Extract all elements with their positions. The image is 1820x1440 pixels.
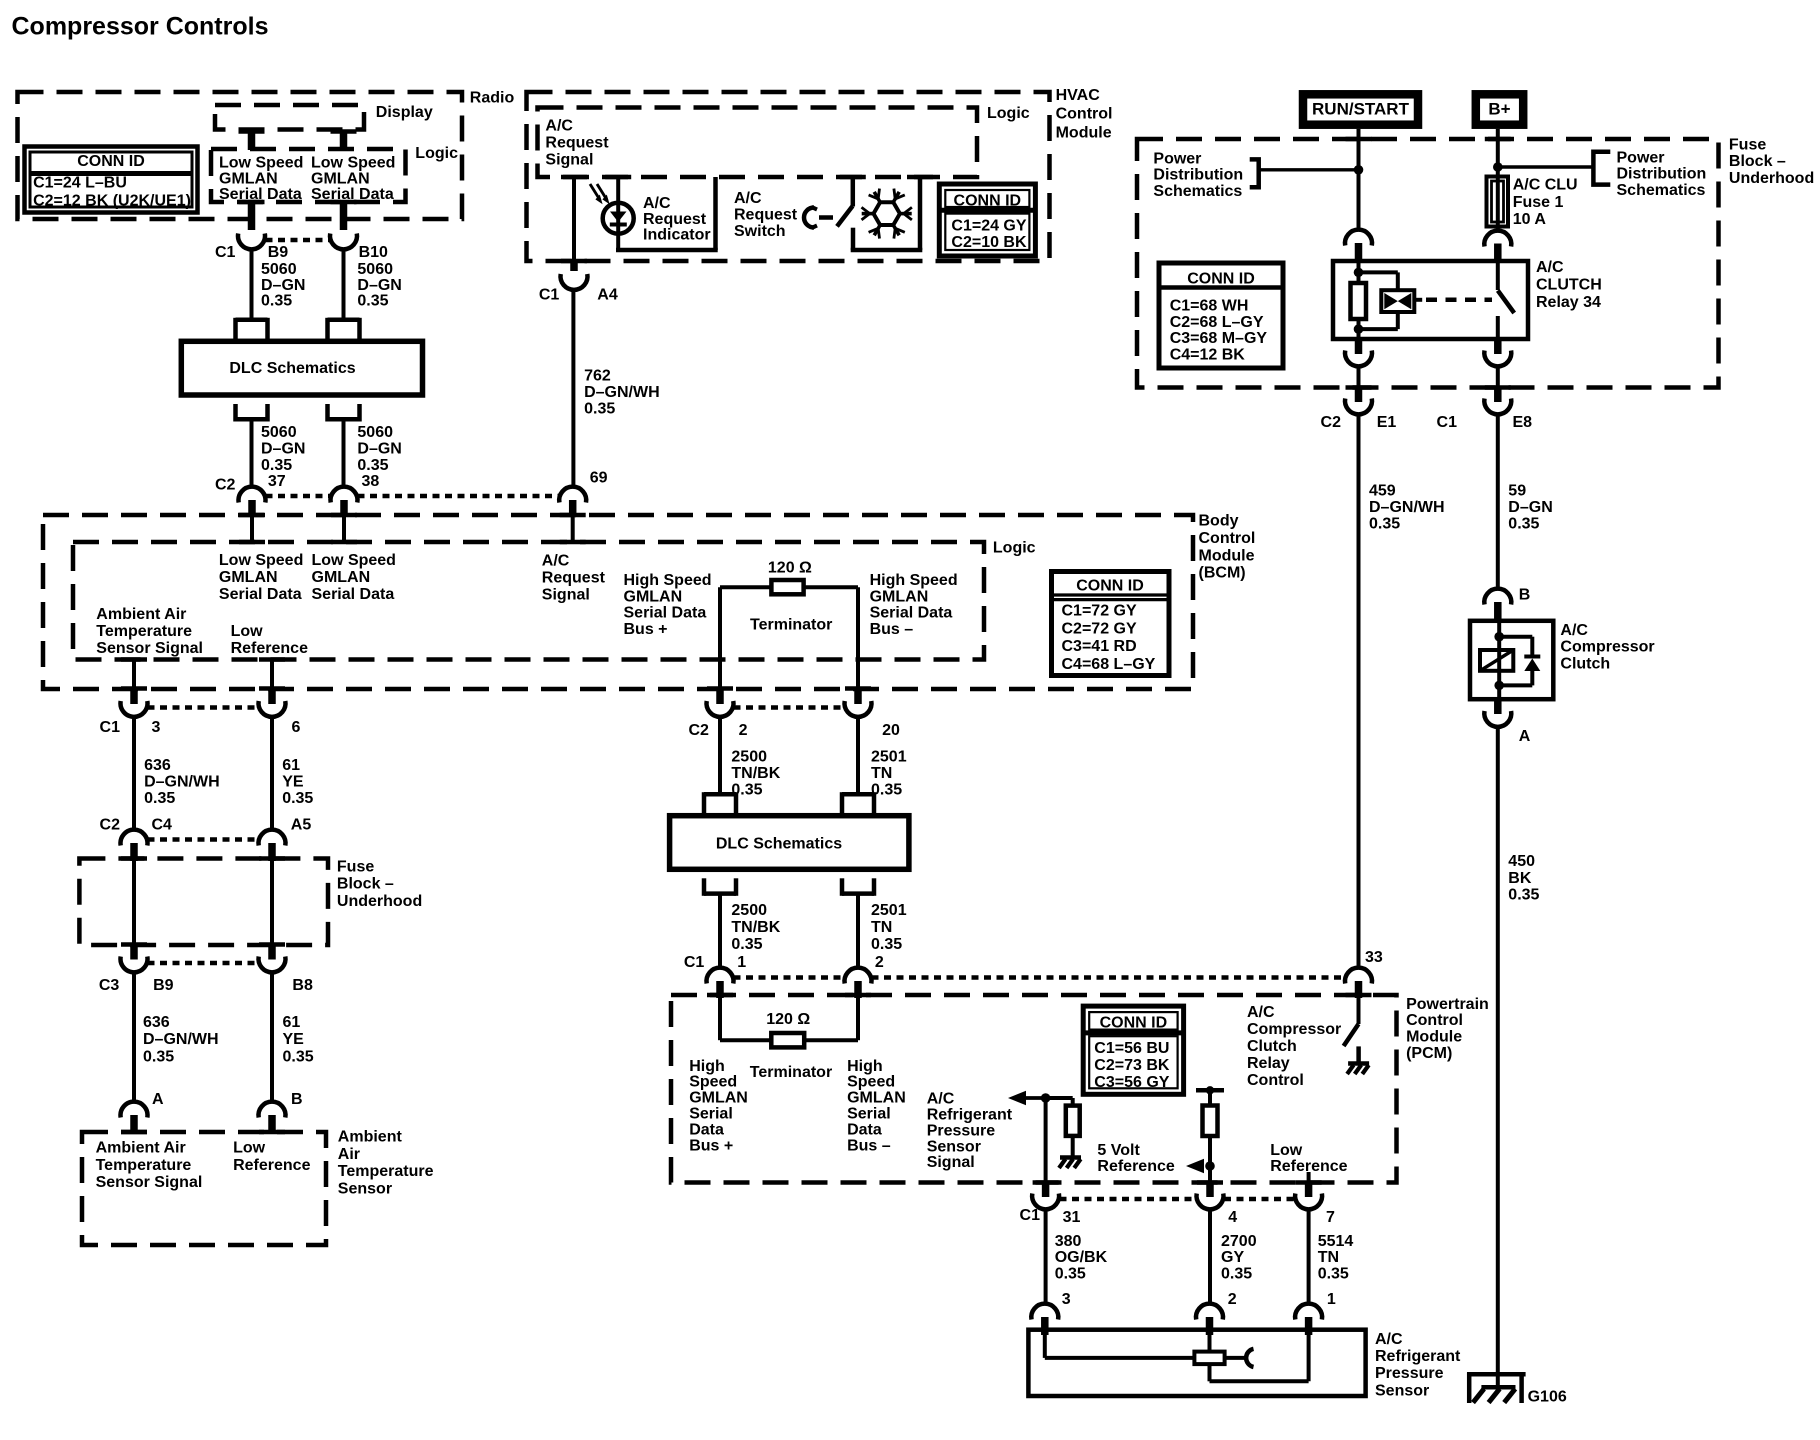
svg-text:Powertrain: Powertrain	[1406, 996, 1489, 1013]
svg-text:3: 3	[1062, 1291, 1071, 1308]
svg-text:Underhood: Underhood	[1729, 170, 1814, 187]
svg-text:0.35: 0.35	[261, 293, 292, 310]
svg-text:0.35: 0.35	[282, 790, 313, 807]
svg-text:Logic: Logic	[993, 540, 1036, 557]
svg-text:D–GN/WH: D–GN/WH	[1369, 499, 1445, 516]
svg-text:GMLAN: GMLAN	[219, 569, 278, 586]
svg-text:C2=12 BK (U2K/UE1): C2=12 BK (U2K/UE1)	[33, 193, 191, 210]
svg-text:Serial Data: Serial Data	[312, 586, 395, 603]
svg-text:Module: Module	[1406, 1029, 1462, 1046]
svg-text:Request: Request	[643, 211, 707, 228]
svg-text:Power: Power	[1153, 151, 1201, 168]
svg-text:6: 6	[292, 719, 301, 736]
svg-text:Request: Request	[542, 570, 606, 587]
svg-text:Logic: Logic	[415, 145, 458, 162]
svg-text:C3=41 RD: C3=41 RD	[1062, 638, 1137, 655]
svg-text:GY: GY	[1221, 1249, 1244, 1266]
svg-text:A/C: A/C	[545, 118, 573, 135]
svg-text:120 Ω: 120 Ω	[766, 1011, 810, 1028]
svg-text:4: 4	[1228, 1209, 1237, 1226]
svg-text:C2=73 BK: C2=73 BK	[1094, 1057, 1170, 1074]
svg-text:C1=56 BU: C1=56 BU	[1094, 1040, 1169, 1057]
svg-text:69: 69	[590, 470, 608, 487]
svg-text:C2=10 BK: C2=10 BK	[951, 234, 1027, 251]
svg-text:A/C: A/C	[1560, 622, 1588, 639]
svg-text:C2: C2	[688, 722, 709, 739]
svg-text:Compressor: Compressor	[1560, 639, 1654, 656]
svg-text:B8: B8	[292, 977, 313, 994]
svg-text:Sensor: Sensor	[338, 1180, 392, 1197]
svg-text:Data: Data	[689, 1121, 724, 1138]
svg-text:B+: B+	[1488, 100, 1510, 119]
svg-text:Compressor: Compressor	[1247, 1021, 1341, 1038]
svg-text:TN: TN	[871, 919, 892, 936]
svg-text:Control: Control	[1406, 1012, 1463, 1029]
svg-text:High: High	[689, 1058, 725, 1075]
svg-text:Control: Control	[1056, 106, 1113, 123]
svg-text:C4: C4	[152, 816, 173, 833]
svg-text:Serial Data: Serial Data	[624, 605, 707, 622]
svg-text:Refrigerant: Refrigerant	[1375, 1348, 1461, 1365]
svg-text:C1: C1	[1020, 1207, 1041, 1224]
svg-text:7: 7	[1326, 1209, 1335, 1226]
svg-text:C2: C2	[1321, 414, 1342, 431]
svg-text:Bus +: Bus +	[689, 1137, 733, 1154]
svg-text:DLC Schematics: DLC Schematics	[229, 360, 355, 377]
svg-text:Low: Low	[231, 623, 264, 640]
svg-text:Distribution: Distribution	[1617, 166, 1707, 183]
svg-text:0.35: 0.35	[1055, 1265, 1086, 1282]
svg-text:20: 20	[882, 722, 900, 739]
svg-text:C3: C3	[99, 977, 120, 994]
svg-text:B10: B10	[359, 244, 388, 261]
svg-text:5 Volt: 5 Volt	[1097, 1142, 1140, 1159]
svg-text:636: 636	[143, 1014, 170, 1031]
svg-text:2: 2	[739, 722, 748, 739]
svg-text:HVAC: HVAC	[1056, 87, 1101, 104]
svg-text:GMLAN: GMLAN	[312, 569, 371, 586]
svg-text:0.35: 0.35	[584, 400, 615, 417]
svg-text:Terminator: Terminator	[750, 1064, 832, 1081]
svg-text:Control: Control	[1247, 1072, 1304, 1089]
svg-text:Serial Data: Serial Data	[219, 586, 302, 603]
svg-text:Request: Request	[545, 135, 609, 152]
svg-text:2: 2	[875, 954, 884, 971]
svg-text:Signal: Signal	[542, 587, 590, 604]
svg-text:Refrigerant: Refrigerant	[927, 1107, 1013, 1124]
svg-text:RUN/START: RUN/START	[1312, 100, 1410, 119]
svg-text:Bus +: Bus +	[624, 621, 668, 638]
svg-text:A4: A4	[597, 287, 618, 304]
svg-text:1: 1	[1327, 1291, 1336, 1308]
svg-text:10 A: 10 A	[1513, 211, 1547, 228]
svg-text:Bus –: Bus –	[870, 621, 914, 638]
svg-text:OG/BK: OG/BK	[1055, 1249, 1108, 1266]
svg-text:C2=68 L–GY: C2=68 L–GY	[1170, 314, 1264, 331]
svg-text:2700: 2700	[1221, 1233, 1257, 1250]
svg-text:A/C: A/C	[734, 190, 762, 207]
svg-text:A/C: A/C	[1375, 1331, 1403, 1348]
svg-text:Switch: Switch	[734, 223, 786, 240]
svg-text:CONN ID: CONN ID	[1187, 270, 1255, 287]
svg-text:Indicator: Indicator	[643, 227, 711, 244]
svg-text:C1=24 GY: C1=24 GY	[951, 218, 1026, 235]
svg-text:C1=68 WH: C1=68 WH	[1170, 298, 1249, 315]
svg-text:Terminator: Terminator	[750, 617, 832, 634]
svg-text:GMLAN: GMLAN	[689, 1090, 748, 1107]
svg-text:Ambient Air: Ambient Air	[96, 1140, 186, 1157]
svg-text:Bus –: Bus –	[847, 1137, 891, 1154]
svg-text:E1: E1	[1377, 414, 1397, 431]
svg-text:0.35: 0.35	[357, 293, 388, 310]
svg-text:Body: Body	[1199, 513, 1239, 530]
svg-text:762: 762	[584, 367, 611, 384]
svg-text:Sensor Signal: Sensor Signal	[96, 640, 203, 657]
svg-text:D–GN: D–GN	[357, 440, 401, 457]
svg-text:D–GN/WH: D–GN/WH	[144, 774, 220, 791]
svg-text:C1: C1	[539, 287, 560, 304]
svg-text:YE: YE	[282, 774, 304, 791]
svg-text:E8: E8	[1513, 414, 1533, 431]
svg-text:0.35: 0.35	[1221, 1265, 1252, 1282]
svg-text:D–GN: D–GN	[357, 277, 401, 294]
svg-text:Control: Control	[1199, 530, 1256, 547]
svg-text:B: B	[1519, 587, 1531, 604]
svg-text:(PCM): (PCM)	[1406, 1045, 1452, 1062]
svg-text:Signal: Signal	[927, 1154, 975, 1171]
svg-text:A/C: A/C	[542, 553, 570, 570]
svg-text:TN: TN	[1318, 1249, 1339, 1266]
svg-text:1: 1	[737, 954, 746, 971]
svg-text:Low Speed: Low Speed	[311, 155, 395, 172]
svg-text:Low: Low	[233, 1140, 266, 1157]
svg-text:A/C CLU: A/C CLU	[1513, 177, 1578, 194]
svg-text:37: 37	[268, 473, 286, 490]
svg-text:GMLAN: GMLAN	[870, 588, 929, 605]
svg-text:Fuse: Fuse	[337, 858, 374, 875]
svg-text:Ambient: Ambient	[338, 1129, 403, 1146]
svg-text:Low Speed: Low Speed	[312, 552, 396, 569]
svg-text:Radio: Radio	[470, 90, 515, 107]
svg-text:5514: 5514	[1318, 1233, 1354, 1250]
svg-text:2500: 2500	[731, 749, 767, 766]
svg-text:Logic: Logic	[987, 105, 1030, 122]
svg-text:Low: Low	[1270, 1142, 1303, 1159]
svg-text:Speed: Speed	[689, 1074, 737, 1091]
svg-text:Schematics: Schematics	[1617, 182, 1706, 199]
svg-text:A: A	[152, 1091, 164, 1108]
svg-text:A: A	[1519, 728, 1531, 745]
svg-text:61: 61	[283, 1014, 301, 1031]
svg-text:0.35: 0.35	[261, 457, 292, 474]
svg-text:GMLAN: GMLAN	[624, 588, 683, 605]
svg-text:2: 2	[1228, 1291, 1237, 1308]
svg-text:High: High	[847, 1058, 883, 1075]
svg-text:0.35: 0.35	[731, 936, 762, 953]
svg-text:5060: 5060	[261, 261, 297, 278]
svg-text:38: 38	[362, 473, 380, 490]
svg-text:D–GN: D–GN	[1508, 499, 1552, 516]
svg-text:Module: Module	[1056, 124, 1112, 141]
svg-text:31: 31	[1063, 1209, 1081, 1226]
svg-text:YE: YE	[283, 1031, 305, 1048]
svg-text:GMLAN: GMLAN	[311, 170, 370, 187]
svg-text:Schematics: Schematics	[1153, 183, 1242, 200]
svg-text:C2=72 GY: C2=72 GY	[1062, 620, 1137, 637]
svg-text:Display: Display	[376, 104, 433, 121]
svg-text:Request: Request	[734, 206, 798, 223]
svg-text:59: 59	[1508, 482, 1526, 499]
svg-text:C2: C2	[100, 816, 121, 833]
svg-text:C3=68 M–GY: C3=68 M–GY	[1170, 330, 1268, 347]
svg-text:0.35: 0.35	[871, 936, 902, 953]
svg-text:2501: 2501	[871, 749, 907, 766]
svg-text:5060: 5060	[357, 424, 393, 441]
svg-text:0.35: 0.35	[1318, 1265, 1349, 1282]
svg-text:C3=56 GY: C3=56 GY	[1094, 1074, 1169, 1091]
svg-text:61: 61	[282, 757, 300, 774]
svg-text:CLUTCH: CLUTCH	[1536, 277, 1602, 294]
svg-text:C1=72 GY: C1=72 GY	[1062, 603, 1137, 620]
svg-text:0.35: 0.35	[144, 790, 175, 807]
svg-text:(BCM): (BCM)	[1199, 565, 1246, 582]
svg-text:450: 450	[1508, 853, 1535, 870]
svg-text:B9: B9	[153, 977, 174, 994]
svg-text:Reference: Reference	[231, 640, 308, 657]
svg-text:Fuse: Fuse	[1729, 136, 1766, 153]
svg-text:0.35: 0.35	[143, 1048, 174, 1065]
svg-text:Block –: Block –	[337, 876, 394, 893]
svg-text:Temperature: Temperature	[96, 1157, 192, 1174]
svg-text:TN: TN	[871, 765, 892, 782]
svg-text:Relay: Relay	[1247, 1055, 1290, 1072]
svg-text:0.35: 0.35	[1369, 516, 1400, 533]
svg-text:C1: C1	[1437, 414, 1458, 431]
svg-text:Reference: Reference	[1097, 1158, 1174, 1175]
svg-text:CONN ID: CONN ID	[1076, 578, 1144, 595]
svg-text:2501: 2501	[871, 902, 907, 919]
svg-text:C4=68 L–GY: C4=68 L–GY	[1062, 656, 1156, 673]
svg-text:CONN ID: CONN ID	[77, 153, 145, 170]
svg-text:GMLAN: GMLAN	[219, 170, 278, 187]
svg-text:C1: C1	[100, 719, 121, 736]
svg-text:380: 380	[1055, 1233, 1082, 1250]
svg-text:A/C: A/C	[643, 195, 671, 212]
svg-text:A5: A5	[291, 816, 312, 833]
svg-text:0.35: 0.35	[357, 457, 388, 474]
svg-text:TN/BK: TN/BK	[731, 919, 780, 936]
svg-text:Signal: Signal	[545, 152, 593, 169]
svg-text:Clutch: Clutch	[1560, 655, 1610, 672]
svg-text:C1: C1	[215, 244, 236, 261]
svg-text:120 Ω: 120 Ω	[768, 559, 812, 576]
svg-text:Ambient Air: Ambient Air	[96, 606, 186, 623]
svg-text:Serial Data: Serial Data	[870, 605, 953, 622]
svg-text:B: B	[291, 1091, 303, 1108]
svg-text:C1: C1	[684, 954, 705, 971]
svg-text:5060: 5060	[261, 424, 297, 441]
svg-text:2500: 2500	[731, 902, 767, 919]
svg-text:Serial: Serial	[847, 1106, 891, 1123]
svg-text:459: 459	[1369, 482, 1396, 499]
svg-text:Serial: Serial	[689, 1106, 733, 1123]
svg-text:Clutch: Clutch	[1247, 1038, 1297, 1055]
svg-text:Pressure: Pressure	[927, 1122, 996, 1139]
svg-text:C1=24 L–BU: C1=24 L–BU	[33, 175, 127, 192]
svg-text:A/C: A/C	[1536, 259, 1564, 276]
svg-text:Compressor Controls: Compressor Controls	[12, 13, 269, 41]
svg-text:Low Speed: Low Speed	[219, 552, 303, 569]
svg-text:33: 33	[1365, 949, 1383, 966]
svg-text:Sensor Signal: Sensor Signal	[96, 1174, 203, 1191]
svg-text:3: 3	[152, 719, 161, 736]
svg-text:High Speed: High Speed	[870, 572, 958, 589]
svg-text:Module: Module	[1199, 547, 1255, 564]
svg-text:Underhood: Underhood	[337, 893, 422, 910]
svg-text:C4=12 BK: C4=12 BK	[1170, 346, 1246, 363]
svg-text:CONN ID: CONN ID	[1100, 1014, 1168, 1031]
svg-text:Data: Data	[847, 1121, 882, 1138]
svg-text:Temperature: Temperature	[338, 1163, 434, 1180]
svg-text:Speed: Speed	[847, 1074, 895, 1091]
svg-text:Air: Air	[338, 1146, 360, 1163]
svg-text:0.35: 0.35	[283, 1048, 314, 1065]
svg-text:Pressure: Pressure	[1375, 1365, 1444, 1382]
svg-text:636: 636	[144, 757, 171, 774]
svg-text:B9: B9	[268, 244, 289, 261]
svg-text:A/C: A/C	[927, 1091, 955, 1108]
svg-text:DLC Schematics: DLC Schematics	[716, 836, 842, 853]
svg-text:Temperature: Temperature	[96, 623, 192, 640]
svg-text:Block –: Block –	[1729, 153, 1786, 170]
svg-text:0.35: 0.35	[1508, 887, 1539, 904]
svg-text:TN/BK: TN/BK	[731, 765, 780, 782]
svg-text:D–GN: D–GN	[261, 277, 305, 294]
svg-text:GMLAN: GMLAN	[847, 1090, 906, 1107]
svg-text:C2: C2	[215, 477, 236, 494]
svg-text:G106: G106	[1528, 1389, 1567, 1406]
svg-text:Fuse 1: Fuse 1	[1513, 194, 1564, 211]
svg-text:Distribution: Distribution	[1153, 167, 1243, 184]
svg-text:Relay 34: Relay 34	[1536, 294, 1601, 311]
svg-text:High Speed: High Speed	[624, 572, 712, 589]
svg-text:D–GN/WH: D–GN/WH	[143, 1031, 219, 1048]
svg-text:5060: 5060	[357, 261, 393, 278]
svg-text:D–GN/WH: D–GN/WH	[584, 384, 660, 401]
svg-text:0.35: 0.35	[1508, 516, 1539, 533]
svg-text:Sensor: Sensor	[927, 1138, 981, 1155]
svg-text:Power: Power	[1617, 149, 1665, 166]
svg-text:CONN ID: CONN ID	[954, 192, 1022, 209]
svg-text:A/C: A/C	[1247, 1004, 1275, 1021]
svg-text:BK: BK	[1508, 870, 1532, 887]
svg-text:Reference: Reference	[233, 1157, 310, 1174]
svg-text:D–GN: D–GN	[261, 440, 305, 457]
svg-text:Low Speed: Low Speed	[219, 155, 303, 172]
svg-text:Sensor: Sensor	[1375, 1382, 1429, 1399]
